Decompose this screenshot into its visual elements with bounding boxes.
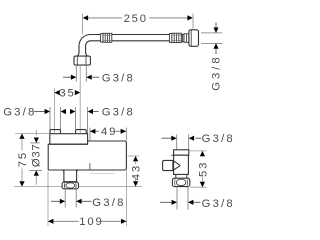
svg-text:G3/8: G3/8: [102, 106, 135, 118]
top ext line to left: [15, 133, 50, 135]
svg-text:109: 109: [79, 216, 103, 228]
svg-text:G3/8: G3/8: [211, 54, 223, 91]
svg-text:43: 43: [130, 164, 142, 180]
bottom outlet stub: [62, 170, 64, 172]
hose right ferrule: [169, 34, 172, 43]
dim 250 extension line right: [192, 14, 194, 29]
svg-text:75: 75: [17, 151, 29, 167]
svg-text:Ø37: Ø37: [30, 144, 42, 167]
left stub: [50, 130, 61, 134]
svg-text:G3/8: G3/8: [202, 198, 235, 210]
hose bottom nut: [74, 56, 90, 65]
bottom G3/8 ext lines (side view): [176, 187, 178, 210]
seam line: [89, 163, 91, 170]
svg-text:G3/8: G3/8: [3, 106, 36, 118]
right stub G3/8 label: [87, 107, 89, 134]
top plate: [50, 134, 88, 145]
right stub: [76, 130, 87, 134]
dim 43: [133, 156, 138, 161]
bottom G3/8 label (side view): [160, 201, 172, 203]
hose washer: [184, 34, 189, 43]
outlet block: [163, 160, 173, 170]
dim 53 top ext line: [189, 150, 206, 152]
dim 75 arrows and text: [19, 134, 24, 139]
G3/8 hose-bottom extension lines: [75, 66, 77, 82]
cap: [174, 150, 189, 155]
svg-text:49: 49: [101, 126, 117, 138]
dim 49 ext lines: [89, 128, 91, 141]
svg-text:G3/8: G3/8: [92, 197, 125, 209]
left stub outer ext line: [49, 107, 51, 130]
svg-text:G3/8: G3/8: [102, 73, 135, 85]
dim 250 arrow left: [83, 15, 88, 20]
side bottom ext line: [191, 186, 207, 188]
arrows: [215, 23, 217, 29]
long bottom ext line: [14, 186, 62, 188]
dim 109 ext lines: [47, 172, 49, 227]
dim 250 extension line left: [81, 14, 83, 35]
outlet cone: [173, 161, 180, 171]
dim Ø37 arrows and text: [35, 130, 37, 135]
svg-text:G3/8: G3/8: [202, 133, 235, 145]
hose right crimp sleeve: [172, 33, 181, 42]
body right section bottom (faint): [90, 172, 115, 174]
hose left crimp sleeve: [103, 33, 112, 42]
side nut: [172, 178, 189, 186]
body left section: [48, 144, 88, 170]
neck: [175, 174, 177, 178]
ext line left (stub center): [53, 88, 55, 133]
dim 250 line: [87, 17, 122, 19]
dim 53: [200, 151, 205, 156]
stubs inner edges arrows: [60, 107, 62, 130]
top G3/8 label: [161, 137, 171, 139]
svg-text:53: 53: [197, 161, 209, 177]
G3/8 hose-bottom label: [63, 76, 71, 78]
ledge tick: [171, 154, 173, 156]
hose elbow outer: [78, 35, 91, 56]
dim 43 top ext line: [128, 155, 139, 157]
bottom outlet nut: [62, 182, 78, 189]
body right section (top+right dark): [88, 141, 127, 170]
hose bottom line: [91, 40, 170, 42]
Ø37 top ext line: [30, 142, 40, 144]
G3/8 vertical dim right of hose: ext lines: [201, 32, 222, 34]
hose spline ring: [181, 34, 184, 41]
body: [174, 155, 189, 174]
dim 35: [54, 90, 59, 95]
hose union nut right: [189, 30, 199, 47]
Ø37 bottom ext line: [29, 169, 42, 171]
dim 49: [90, 130, 99, 132]
G3/8 bottom outlet ext lines: [64, 189, 66, 208]
G3/8 bottom outlet label: [51, 200, 60, 202]
center extension line below hose nut (to right stub): [79, 65, 81, 133]
hose top line: [91, 34, 170, 36]
dim 109: [48, 220, 79, 222]
top G3/8 ext lines: [176, 134, 178, 149]
hose elbow inner: [86, 41, 91, 56]
dim 250 arrow right: [187, 15, 192, 20]
svg-text:250: 250: [124, 13, 148, 25]
hose left ferrule: [101, 34, 103, 42]
svg-text:35: 35: [59, 88, 75, 100]
